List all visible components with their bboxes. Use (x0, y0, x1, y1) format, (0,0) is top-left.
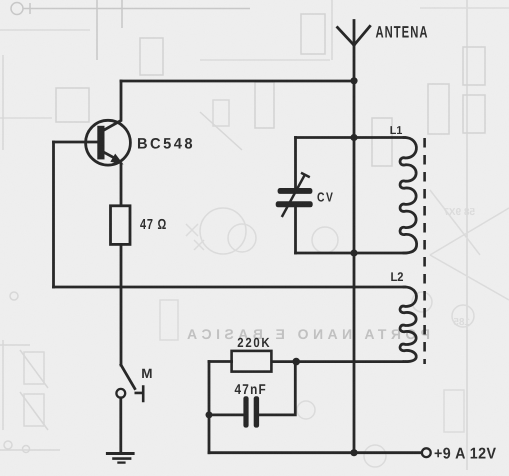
wire 47nF right and up (259, 362, 295, 415)
wire base horizontal (54, 141, 99, 144)
resistor 47 ohm body (111, 206, 131, 245)
capacitor 47nF left plate (243, 396, 248, 427)
wire L2 top horizontal (54, 286, 406, 289)
junction dot antenna node (350, 77, 357, 84)
capacitor 47nF right plate (254, 396, 259, 427)
inductor L2 coil (400, 287, 416, 362)
transistor Q1 emitter with arrow (104, 152, 124, 164)
wire bottom supply rail (209, 451, 422, 454)
switch M terminal circle (116, 389, 125, 398)
junction dot 47nF left (206, 411, 213, 418)
wire tank top horizontal (296, 136, 406, 139)
wire CV bottom (294, 207, 297, 253)
junction dot tank bottom (350, 249, 357, 256)
capacitor CV arrow (282, 173, 310, 217)
junction dot right of 220K (292, 358, 300, 366)
wire resistor to switch (120, 244, 123, 365)
wire main vertical (antenna to bottom rail) (353, 21, 356, 453)
wire CV top (294, 138, 297, 189)
switch M knob contact (135, 385, 144, 402)
wire L2 bottom horizontal (271, 360, 405, 363)
wire left vertical to bottom rail (208, 362, 211, 453)
resistor 220K body (232, 351, 272, 372)
antenna symbol (338, 26, 370, 45)
transistor Q1 base bar (97, 126, 104, 160)
wire collector-to-antenna horizontal (121, 80, 354, 83)
core dashed line (423, 138, 426, 364)
transistor Q1 BC548 circle (86, 120, 131, 165)
wire 47nF left (209, 413, 243, 416)
wire tank bottom horizontal (296, 252, 406, 255)
ground symbol (106, 454, 135, 463)
terminal +9-12V circle (422, 448, 431, 457)
wire switch to ground (119, 398, 122, 453)
junction dot tank top (350, 134, 357, 141)
wire left vertical (base loop) (52, 142, 55, 287)
capacitor CV bottom plate (276, 201, 313, 207)
wire emitter to resistor (120, 164, 123, 206)
capacitor CV top plate (278, 188, 313, 194)
junction dot bottom rail (350, 449, 357, 456)
inductor L1 coil (400, 137, 417, 253)
wire 220K left (209, 360, 232, 363)
wire collector vertical (104, 81, 122, 130)
switch M lever (121, 365, 135, 389)
